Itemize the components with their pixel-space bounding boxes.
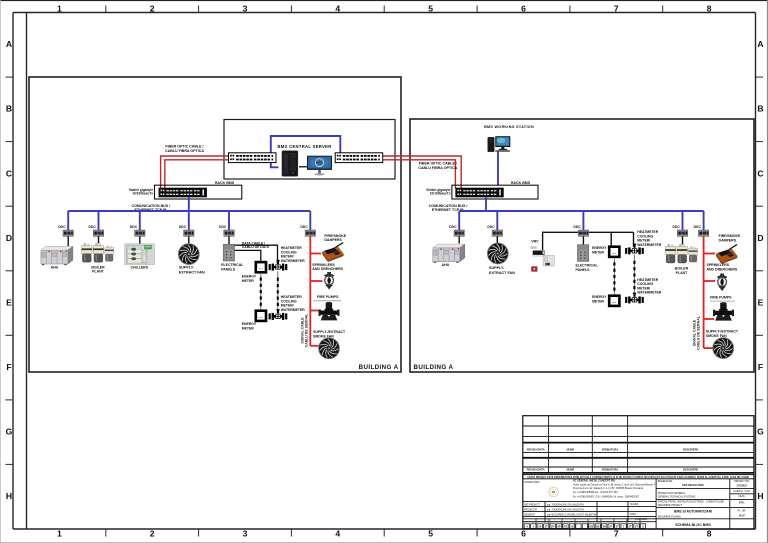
svg-text:DDC: DDC (487, 225, 495, 229)
svg-text:4: 4 (335, 4, 340, 14)
svg-text:ACEST PROIECT ESTE PROPRIETATE: ACEST PROIECT ESTE PROPRIETATEA INTELECT… (527, 476, 749, 479)
svg-text:H: H (6, 491, 12, 501)
svg-text:EXTRACT FAN: EXTRACT FAN (489, 271, 515, 275)
label energy meter 1 (right) (592, 246, 607, 254)
svg-text:ELECTRICAL: ELECTRICAL (221, 263, 244, 267)
svg-text:ENERGY: ENERGY (592, 246, 607, 250)
wire: bus drop (98, 211, 100, 230)
DDC controller (492, 230, 502, 236)
svg-text:SUPPLY-: SUPPLY- (489, 266, 505, 270)
wire: DDC to chillers (139, 236, 141, 244)
svg-text:DDC: DDC (300, 225, 308, 229)
svg-text:DDC: DDC (58, 225, 66, 229)
sprinkler head (left) (324, 272, 334, 290)
svg-text:SC GENERAL INSTAL CONCEPT: SC GENERAL INSTAL CONCEPT SRL (573, 480, 616, 483)
DDC controller (698, 230, 708, 236)
wire: rack to bus (right) (485, 197, 487, 211)
energy meter 1 (right) (609, 247, 619, 257)
heat/water meter 2 (left) (269, 309, 288, 320)
wire: rack to bus (left) (188, 197, 190, 211)
svg-text:C: C (6, 168, 12, 178)
wire: bus drop (458, 211, 460, 230)
wire: fiber optic pair to right rack (382, 156, 461, 189)
svg-text:VERIFICAT: VERIFICAT (524, 520, 536, 523)
chillers (left) (125, 244, 155, 265)
DDC controller (184, 230, 194, 236)
svg-text:REVIZIA/DATA: REVIZIA/DATA (527, 447, 545, 451)
AHU unit (right) (433, 244, 465, 263)
svg-text:SEMNATURA: SEMNATURA (602, 468, 619, 472)
wire: bus drop (682, 211, 684, 230)
svg-text:8: 8 (707, 529, 712, 539)
svg-text:DDC: DDC (130, 225, 138, 229)
svg-text:SUPPLY-/EXTRACT: SUPPLY-/EXTRACT (313, 330, 346, 334)
specialitate / titles (658, 501, 724, 527)
svg-text:1: 1 (57, 4, 62, 14)
wire: bus drop (703, 211, 705, 230)
svg-text:CALITATEA: CALITATEA (550, 520, 562, 523)
svg-text:METER: METER (242, 327, 254, 331)
label heatmeter 1 (right) (637, 230, 661, 247)
svg-text:14: 14 (538, 525, 542, 529)
svg-text:PROIECTAT: PROIECTAT (524, 508, 538, 511)
wire: bus drop (582, 211, 584, 230)
svg-text:PL. NR:: PL. NR: (738, 509, 747, 512)
scan edge artifact bottom (0, 541, 768, 543)
svg-text:BOILER: BOILER (91, 265, 105, 269)
svg-text:H: H (757, 491, 763, 501)
company logo (549, 487, 559, 497)
label sprinklers (right) (707, 263, 738, 271)
label supply extract fan (right) (489, 266, 515, 275)
svg-text:REFERAT/E: REFERAT/E (536, 520, 549, 523)
svg-text:B: B (6, 104, 12, 114)
network switch (central right) (335, 153, 383, 163)
bottom strip digit boxes (524, 524, 645, 529)
svg-text:4: 4 (335, 529, 340, 539)
DDC controller (677, 230, 687, 236)
label energy meter 2 (right) (592, 295, 607, 303)
svg-text:DDC: DDC (573, 225, 581, 229)
energy meter 2 (right) (609, 296, 619, 306)
svg-text:DENUMIRE PROIECT:: DENUMIRE PROIECT: (658, 504, 683, 507)
wire: DDC to electrical panel (right) (582, 236, 584, 244)
svg-text:1: 1 (57, 529, 62, 539)
boiler plant (left) (82, 243, 114, 262)
label boiler plant (left) (91, 265, 105, 273)
svg-text:3T: 3T (616, 525, 620, 529)
svg-text:METER: METER (592, 299, 604, 303)
wire: stub to smoke fan (right) (704, 347, 713, 349)
label energy meter 2 (left) (242, 322, 257, 330)
title block note bar (523, 475, 754, 479)
svg-text:WATERMETER: WATERMETER (281, 259, 305, 263)
building A (left) outline box (29, 77, 401, 372)
rack BMS box (left) (155, 185, 242, 199)
svg-text:RACK BMS: RACK BMS (511, 181, 531, 185)
wire: stub to fire pump (left) (310, 310, 321, 312)
svg-text:5: 5 (428, 529, 433, 539)
svg-text:SGB DEZVOLTARE: SGB DEZVOLTARE (682, 484, 704, 487)
svg-text:METER: METER (592, 250, 604, 254)
wire: workstation to rack (right) (497, 152, 499, 185)
switch gigabyte (left rack) (159, 188, 207, 197)
switch gigabyte (right rack) (456, 188, 504, 197)
svg-text:6: 6 (521, 4, 526, 14)
title block revision table grid (523, 426, 754, 467)
svg-text:NUME: NUME (567, 447, 575, 451)
svg-text:6D: 6D (590, 525, 594, 529)
svg-text:SCARA:: SCARA: (630, 503, 639, 506)
svg-text:8: 8 (707, 4, 712, 14)
label switch gigabyte (left) (129, 188, 153, 196)
wire: communication bus (right) (459, 210, 703, 212)
svg-text:SPECIALIT.: SPECIALIT. (576, 520, 588, 523)
svg-text:BOILER: BOILER (675, 267, 689, 271)
svg-text:BMS SI AUTOMATIZARI: BMS SI AUTOMATIZARI (674, 510, 712, 514)
svg-text:IS-07: IS-07 (739, 514, 745, 517)
wire: bus drop (496, 211, 498, 230)
svg-text:AHU: AHU (442, 263, 450, 267)
svg-text:2T: 2T (545, 525, 549, 529)
wire: metering riser (energy left) (260, 274, 262, 309)
svg-text:DATA:: DATA: (630, 513, 637, 516)
title block company section divider (656, 479, 730, 529)
svg-text:SPRINKLERS: SPRINKLERS (312, 263, 335, 267)
svg-text:BMS CENTRAL SERVER: BMS CENTRAL SERVER (277, 144, 331, 149)
svg-text:2B: 2B (596, 525, 600, 529)
svg-text:PANELS: PANELS (576, 268, 591, 272)
supply extract smoke fan (left) (319, 338, 340, 359)
svg-text:SPRINKLERS: SPRINKLERS (707, 263, 730, 267)
label electrical panels (left) (221, 263, 244, 271)
svg-text:BENEFICIAR:: BENEFICIAR: (658, 480, 673, 483)
svg-text:F: F (6, 362, 11, 372)
DDC controller (63, 230, 73, 236)
fire pump (left) (319, 302, 340, 321)
wire: DDC to AHU (right) (458, 236, 460, 243)
wire: panel to energy meter 1 (235, 250, 261, 261)
svg-text:CABLU DE SEMNAL: CABLU DE SEMNAL (696, 315, 700, 350)
wire: DDC to boiler (98, 236, 100, 243)
svg-text:DESCRIERE: DESCRIERE (683, 468, 698, 472)
svg-text:COD: COD (631, 521, 636, 523)
electrical panel (right) (577, 245, 588, 262)
supply extract smoke fan (right) (713, 338, 734, 359)
svg-text:276/2022: 276/2022 (737, 485, 748, 488)
svg-text:2T: 2T (628, 525, 632, 529)
heat/water meter 1 (left) (269, 260, 288, 271)
wire: stub to sprinkler (right) (704, 280, 715, 282)
label fiber optic cable (left) (165, 145, 204, 153)
svg-text:RACK BMS: RACK BMS (215, 181, 235, 185)
wire: fire signal cable (right) (703, 236, 705, 348)
svg-text:2: 2 (150, 4, 155, 14)
svg-text:AHU: AHU (51, 265, 59, 269)
svg-text:DAMPERS: DAMPERS (324, 238, 342, 242)
svg-text:SUPPLY-: SUPPLY- (179, 265, 195, 269)
svg-text:DDC: DDC (694, 225, 702, 229)
DDC controller (578, 230, 588, 236)
svg-text:SEMNATURA: SEMNATURA (602, 447, 619, 451)
wire: stub to smoke fan (left) (310, 345, 318, 347)
svg-text:Nr: +4.0368.005457; CUI /: Nr: +4.0368.005457; CUI / 16486036; Nr. … (573, 496, 640, 499)
svg-text:10/100baseTx: 10/100baseTx (132, 191, 153, 195)
scan edge artifact right (767, 0, 768, 543)
svg-text:E: E (6, 297, 12, 307)
svg-text:ing. TUDORACHE ION VALENTIN: ing. TUDORACHE ION VALENTIN (547, 503, 584, 506)
svg-text:BMS WORKING STATION: BMS WORKING STATION (484, 125, 534, 129)
supply-extract fan (left) (178, 244, 199, 265)
boiler plant (right) (665, 244, 697, 263)
svg-text:DENUMIRE PLANSA:: DENUMIRE PLANSA: (658, 516, 682, 519)
BMS central server enclosure box (224, 120, 395, 180)
label switch gigabyte (right) (426, 188, 450, 196)
wire: stub to damper (right) (704, 253, 715, 255)
svg-text:PANELS: PANELS (221, 267, 236, 271)
svg-text:FAZA:: FAZA: (738, 495, 745, 498)
fire/smoke damper (right) (716, 245, 737, 264)
svg-text:D: D (757, 233, 763, 243)
wire: DDC to fan (right) (496, 236, 498, 243)
svg-text:10/100baseTx: 10/100baseTx (430, 191, 451, 195)
svg-text:DDC: DDC (219, 225, 227, 229)
wire: drop to energy meter 1 (right) (610, 232, 612, 245)
svg-text:DDC: DDC (449, 225, 457, 229)
svg-text:PLANT: PLANT (92, 270, 105, 274)
signature rows text (524, 503, 648, 521)
svg-text:A: A (6, 39, 12, 49)
server tower (282, 151, 298, 176)
wire: metering riser (water left) (277, 271, 279, 312)
svg-text:2T: 2T (609, 525, 613, 529)
wire: stub to sprinkler (left) (310, 280, 322, 282)
svg-text:DDC: DDC (89, 225, 97, 229)
label heatmeter 2 (right) (637, 278, 661, 295)
svg-text:3: 3 (243, 529, 248, 539)
svg-text:ENERGY: ENERGY (592, 295, 607, 299)
svg-text:DESENAT: DESENAT (524, 513, 536, 516)
svg-text:7S: 7S (564, 525, 568, 529)
svg-text:ENERGY: ENERGY (242, 275, 257, 279)
svg-text:7: 7 (614, 4, 619, 14)
svg-text:EXTRACT FAN: EXTRACT FAN (179, 270, 205, 274)
svg-text:SEF PROIECT: SEF PROIECT (524, 503, 540, 506)
wire: bus drop (139, 211, 141, 230)
wire: DDC to boiler (right) (682, 236, 684, 244)
svg-text:CABLU DE SEMNAL: CABLU DE SEMNAL (304, 313, 308, 348)
energy meter 1 (left) (256, 262, 266, 272)
bottom revision strip (523, 518, 656, 520)
svg-text:tel: +4.0368.005486 fax: +4.03: tel: +4.0368.005486 fax: +4.0372.877.180 (573, 491, 618, 494)
svg-text:F: F (758, 362, 763, 372)
fire pump (right) (713, 302, 734, 321)
wire: stub to fire pump (right) (704, 318, 714, 320)
svg-text:3: 3 (243, 4, 248, 14)
svg-text:PLANT: PLANT (676, 271, 689, 275)
svg-text:2H: 2H (602, 525, 606, 529)
svg-text:E: E (758, 297, 764, 307)
svg-text:AND DRENCHERS: AND DRENCHERS (312, 267, 343, 271)
wire: fire signal cable (left) (309, 236, 311, 345)
svg-text:WATERMETER: WATERMETER (281, 308, 305, 312)
wire: monitor cable (299, 166, 307, 168)
VRV unit (531, 247, 554, 272)
label comunication bus (left) (132, 204, 171, 212)
svg-text:04.07.2023: 04.07.2023 (635, 518, 648, 521)
svg-text:NUME: NUME (567, 468, 575, 472)
svg-text:ing. TUDORACHE ION VALENTIN: ing. TUDORACHE ION VALENTIN (547, 508, 584, 511)
svg-text:BUILDING A: BUILDING A (359, 364, 399, 371)
svg-text:REV.: REV. (618, 521, 623, 523)
svg-text:2S: 2S (570, 525, 574, 529)
label signal cable vertical (right) (693, 315, 701, 350)
svg-text:D: D (6, 233, 12, 243)
network switch (central left) (229, 153, 277, 163)
svg-text:PROIECTANT:: PROIECTANT: (525, 481, 541, 484)
pipe line above pump (right) (710, 300, 735, 302)
label supply extract fan (left) (179, 265, 205, 274)
label fiber optic cable (right) (418, 162, 457, 170)
DDC controller (224, 230, 234, 236)
svg-text:FIRE/SMOKE: FIRE/SMOKE (324, 234, 346, 238)
svg-text:PROIECT NR:: PROIECT NR: (734, 480, 750, 483)
svg-text:2: 2 (150, 529, 155, 539)
svg-text:2T: 2T (635, 525, 639, 529)
wire: metering riser (energy right) (613, 259, 615, 295)
svg-text:BUILDING A: BUILDING A (414, 364, 454, 371)
label sprinklers (left) (312, 263, 343, 271)
svg-text:DDC: DDC (673, 225, 681, 229)
wire: panel DDC to meters (right) (589, 231, 634, 233)
wire: stub to damper (left) (310, 253, 321, 255)
scan edge artifact top (0, 0, 768, 1)
svg-text:PROIECTANT GENERAL:: PROIECTANT GENERAL: (658, 492, 686, 495)
svg-text:P.Th.: P.Th. (739, 501, 745, 504)
wire: fiber optic pair to left rack (161, 156, 229, 189)
svg-text:DESCRIERE: DESCRIERE (683, 447, 698, 451)
label boiler plant (right) (675, 267, 689, 275)
svg-text:SUPPLY-/EXTRACT: SUPPLY-/EXTRACT (706, 330, 739, 334)
svg-text:G: G (757, 427, 764, 437)
svg-text:2F: 2F (551, 525, 555, 529)
svg-text:FIRE PUMPS: FIRE PUMPS (317, 295, 339, 299)
wire: DDC to fan (188, 236, 190, 244)
wire: DDC to AHU (67, 236, 69, 246)
label electrical panels (right) (576, 264, 599, 272)
svg-text:CABLU FIBRA OPTICA: CABLU FIBRA OPTICA (165, 149, 204, 153)
company name and address (573, 480, 656, 499)
label supply extract smoke fan (right) (706, 330, 739, 338)
right info column lines (656, 489, 754, 519)
svg-text:WATERMETER: WATERMETER (637, 291, 661, 295)
DDC controller (135, 230, 145, 236)
electrical panel (left) (223, 244, 234, 261)
wire: bus drop (67, 211, 69, 230)
svg-text:DDC: DDC (179, 225, 187, 229)
label comunication bus (right) (429, 204, 468, 212)
sprinkler head (right) (717, 274, 727, 292)
rack BMS box (right) (452, 185, 538, 199)
svg-text:5: 5 (428, 4, 433, 14)
svg-text:CHILLERS: CHILLERS (131, 265, 149, 269)
beneficiar section (658, 480, 704, 499)
svg-text:EXPERTI: EXPERTI (564, 521, 574, 523)
monitor (307, 156, 332, 176)
AHU unit (left) (41, 246, 73, 265)
svg-text:GENERAL TECHNICAL SYSTEMS: GENERAL TECHNICAL SYSTEMS (658, 496, 696, 499)
fire/smoke damper (left) (322, 243, 343, 262)
energy meter 2 (left) (256, 311, 266, 321)
svg-text:GI: GI (552, 490, 555, 494)
svg-text:ELECTRICAL: ELECTRICAL (576, 264, 599, 268)
svg-text:FIRE PUMPS: FIRE PUMPS (710, 296, 732, 300)
svg-text:ENERGY: ENERGY (242, 322, 257, 326)
building A (right) outline box (410, 119, 754, 372)
wire: bus drop (309, 211, 311, 230)
label data cable (242, 241, 270, 249)
wire: communication bus (left) (68, 210, 310, 212)
wire: bus drop (188, 211, 190, 230)
scan edge artifact left (0, 0, 2, 543)
label energy meter 1 (left) (242, 275, 257, 283)
BMS working station PC (488, 136, 511, 152)
svg-text:6: 6 (521, 529, 526, 539)
svg-text:SCHEMA BLOC BMS: SCHEMA BLOC BMS (675, 523, 711, 527)
svg-text:REVIZIA/DATA: REVIZIA/DATA (527, 468, 545, 472)
signature rows grid (523, 502, 656, 522)
label heatmeter 1 (left) (281, 246, 305, 263)
label supply extract smoke fan (left) (313, 330, 346, 338)
label heatmeter 2 (left) (281, 295, 305, 312)
revision table header texts (527, 447, 699, 471)
svg-text:CERINTA: CERINTA (603, 520, 613, 523)
title block outer frame (523, 416, 754, 529)
svg-text:WATERMETER: WATERMETER (637, 243, 661, 247)
label fire/smoke dampers (right) (719, 234, 741, 242)
wire: VRV to DDC (543, 232, 579, 250)
svg-text:B: B (757, 104, 763, 114)
svg-text:CABLU FIBRA OPTICA: CABLU FIBRA OPTICA (418, 166, 457, 170)
wire: metering riser (water right) (633, 255, 635, 296)
svg-text:DAMPERS: DAMPERS (719, 238, 737, 242)
svg-text:AT. NR./AN: AT. NR./AN (589, 520, 600, 523)
svg-text:FIRE/SMOKE: FIRE/SMOKE (719, 234, 741, 238)
wire: drop to water meter 1 (right) (633, 232, 635, 247)
DDC controller (454, 230, 464, 236)
svg-text:METER: METER (242, 279, 254, 283)
heat/water meter 1 (right) (625, 244, 644, 255)
DDC controller (93, 230, 103, 236)
project number cell (733, 480, 750, 517)
label fire/smoke dampers (left) (324, 234, 346, 242)
svg-text:VRV: VRV (531, 240, 539, 244)
label signal cable vertical (left) (301, 313, 309, 348)
svg-text:A: A (757, 39, 763, 49)
svg-text:ing. BUCURESCU DANIEL IONUT VA: ing. BUCURESCU DANIEL IONUT VALENTIN (547, 513, 596, 516)
svg-text:5P: 5P (557, 525, 561, 529)
DDC controller (305, 230, 315, 236)
svg-text:G: G (6, 427, 13, 437)
wire: bus drop (228, 211, 230, 230)
svg-text:CAIETUL "S-M": CAIETUL "S-M" (733, 490, 750, 493)
svg-text:7: 7 (614, 529, 619, 539)
wire: blue patch cable between central switches (271, 136, 341, 167)
supply-extract fan (right) (487, 243, 508, 264)
wire: DDC to electrical panel (228, 236, 230, 244)
wire: panel to water meter 1 (235, 245, 278, 264)
heat/water meter 2 (right) (625, 293, 644, 304)
